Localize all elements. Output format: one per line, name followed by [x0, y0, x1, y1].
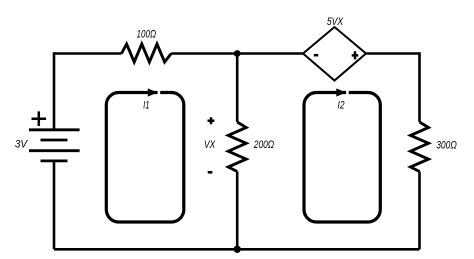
mesh current loop I1 (rounded rectangle)	[106, 93, 184, 223]
battery V1 3V: plate short 1	[41, 139, 68, 142]
resistor R2 200Ω (vertical zigzag)	[228, 122, 246, 172]
plus sign of battery V1	[32, 111, 47, 126]
wire: middle branch upper vertical	[236, 54, 239, 123]
wire: top-left horizontal (source to R1)	[54, 52, 122, 55]
wire: right branch upper vertical	[418, 52, 421, 122]
wire: top middle (R1 to dependent source, through node A)	[171, 52, 303, 55]
node A junction dot (top of 200Ω)	[234, 50, 241, 57]
resistor R1 100Ω (horizontal zigzag)	[122, 44, 172, 62]
plus sign of VX polarity	[208, 117, 215, 124]
svg-text:I1: I1	[143, 99, 149, 111]
arrowhead of loop I1	[148, 88, 158, 96]
svg-text:200Ω: 200Ω	[253, 139, 274, 151]
svg-text:I2: I2	[338, 99, 345, 111]
node B junction dot (bottom of 200Ω)	[234, 246, 241, 253]
minus sign of 5VX source	[314, 54, 319, 57]
mesh current loop I2 (rounded rectangle)	[304, 93, 380, 223]
wire: top-right horizontal (source to right branch)	[366, 52, 420, 55]
svg-text:300Ω: 300Ω	[436, 139, 457, 151]
gap in loop I2 at arrow tip	[346, 90, 349, 95]
wire: middle branch lower vertical	[236, 172, 239, 250]
dependent source U1 5VX (diamond)	[303, 27, 366, 81]
wire: bottom horizontal	[54, 248, 420, 251]
plus sign of 5VX source	[352, 51, 359, 59]
svg-text:3V: 3V	[15, 139, 28, 151]
gap in loop I1 at arrow tip	[158, 90, 161, 95]
minus sign of VX polarity	[208, 171, 213, 174]
battery V1 3V: plate long bottom	[29, 149, 80, 152]
svg-text:VX: VX	[204, 139, 216, 151]
arrowhead of loop I2	[336, 88, 346, 96]
battery V1 3V: plate long top	[29, 128, 80, 131]
svg-text:5VX: 5VX	[327, 16, 344, 28]
resistor R3 300Ω (vertical zigzag)	[411, 122, 429, 172]
wire: left branch upper vertical	[53, 52, 56, 130]
svg-text:100Ω: 100Ω	[137, 29, 157, 41]
battery V1 3V: plate short 2	[41, 159, 68, 162]
wire: right branch lower vertical	[418, 172, 421, 250]
wire: left branch lower vertical	[53, 161, 56, 249]
